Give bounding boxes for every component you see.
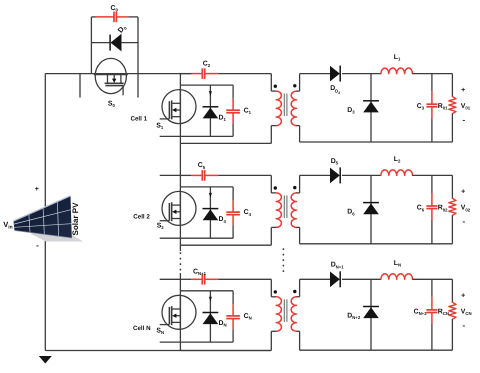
svg-text:CN: CN: [244, 313, 252, 321]
svg-text:C1: C1: [244, 107, 252, 115]
svg-text:DD2: DD2: [330, 85, 340, 95]
svg-text:C4: C4: [244, 209, 252, 217]
svg-text:C3: C3: [417, 103, 425, 111]
svg-text:Vin: Vin: [3, 220, 13, 231]
svg-text:-: -: [462, 321, 465, 330]
svg-text:-: -: [462, 115, 465, 124]
svg-text:D5: D5: [331, 158, 339, 166]
svg-text:+: +: [461, 189, 465, 196]
svg-text:Cell N: Cell N: [133, 325, 151, 332]
svg-text:L2: L2: [394, 156, 401, 164]
svg-text:RCN: RCN: [438, 309, 449, 317]
svg-text:SN: SN: [156, 328, 164, 336]
svg-text:LN: LN: [394, 260, 401, 268]
svg-text:DN+1: DN+1: [331, 262, 345, 270]
svg-text:C0: C0: [111, 5, 119, 13]
svg-text:D6: D6: [347, 209, 355, 217]
svg-text:L1: L1: [394, 54, 401, 62]
svg-text:D4: D4: [219, 216, 227, 224]
svg-text:V01: V01: [461, 103, 471, 111]
svg-text:S2: S2: [157, 222, 165, 230]
svg-text:D3: D3: [347, 107, 355, 115]
svg-text:S1: S1: [156, 122, 164, 130]
svg-text:VCN: VCN: [461, 309, 472, 317]
svg-text:R02: R02: [438, 205, 448, 213]
svg-text:Cell 2: Cell 2: [133, 213, 150, 220]
svg-text:+: +: [35, 186, 39, 193]
svg-text:C5: C5: [198, 162, 206, 170]
svg-text:D1: D1: [219, 114, 227, 122]
svg-text:-: -: [36, 241, 39, 250]
svg-text:+: +: [461, 293, 465, 300]
svg-text:CN+1: CN+1: [193, 268, 207, 276]
svg-text:+: +: [461, 87, 465, 94]
svg-text:-: -: [462, 217, 465, 226]
svg-text:V02: V02: [461, 205, 471, 213]
svg-text:CN+2: CN+2: [414, 309, 428, 317]
svg-text:C6: C6: [417, 205, 425, 213]
svg-text:C2: C2: [203, 61, 211, 69]
svg-text:Cell 1: Cell 1: [131, 116, 148, 123]
svg-text:Solar PV: Solar PV: [71, 202, 80, 236]
svg-text:S0: S0: [108, 101, 116, 109]
svg-text:R01: R01: [438, 103, 448, 111]
svg-text:DN: DN: [219, 320, 227, 328]
svg-text:DN+2: DN+2: [347, 313, 361, 321]
svg-text:D0: D0: [116, 22, 129, 34]
